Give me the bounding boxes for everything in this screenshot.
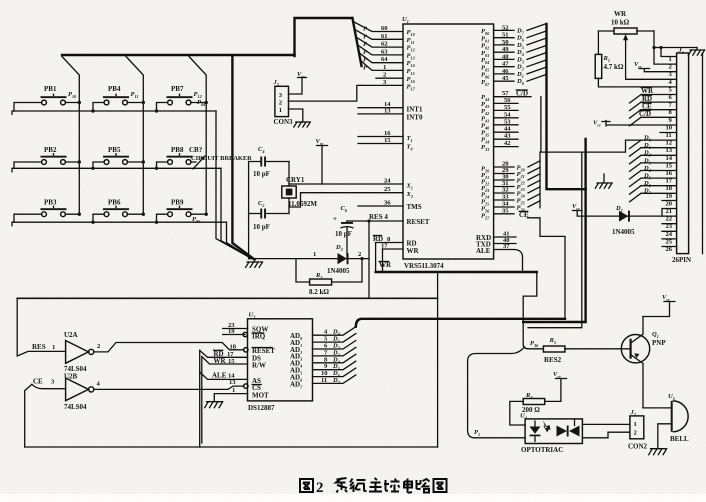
wire: X2 from MCU to crystal [289,193,403,207]
resistor R1 4.7k [595,31,676,87]
DS12887 left pins [223,322,276,400]
Vcc at transistor collector [643,294,675,317]
pushbutton PB9 [155,199,208,225]
char 图 [300,479,313,492]
wire: optotriac outputs to CON2 [582,423,630,425]
ground at bell [649,449,667,455]
char 控 [384,479,400,492]
wire: CON3 pin1 to ground [289,109,303,122]
wire: CON3 pin2 long wire to MCU [289,85,361,101]
wire: MCU pins 60-64,1 fan (P1 port) [353,22,403,72]
wire: MCU bottom bus [376,271,537,273]
wire: top thick bus over keypad [62,54,295,56]
char 统 [350,479,367,493]
wire: center vertical from bus to bottom rail [437,272,439,447]
wire: U2B output net 4 to DS12887 CS [94,386,244,389]
pushbutton PB4 [91,85,145,113]
wire: keypad row 2 line [12,168,221,172]
wire: CE loop left riser [25,384,32,447]
ground mid right [595,174,612,188]
wire: bell second contact to ground [658,424,671,449]
wire: keypad row 1 line [12,111,216,114]
char 电 [404,479,412,493]
wire: second bus line [528,152,582,328]
optocoupler U4 OPTOTRIAC [520,413,582,455]
resistor R5 RES2 [530,337,630,364]
MCU right group3: pins 28-35 P2 port [481,161,540,221]
wire: transistor emitter to bell [643,407,671,409]
inverter U2B 74LS04 [32,373,101,412]
wire: C/D net down [541,97,582,152]
char 图 (second) [434,479,447,492]
wire: 26PIN top rail to ground [654,47,697,49]
wire: DS data bus to right [356,319,565,327]
Vcc to 26PIN pin 10 [593,120,677,128]
wire: MCU pin 2 stub [376,72,403,79]
wire: MOT pin 1 to ground [214,387,247,402]
wire: control bus vertical to bottom rail [200,350,202,447]
caption: 图2 系统主控电路图 [300,478,447,496]
paper noise overlay [0,0,1,1]
DS12887 right AD0-AD7 labels [290,332,303,389]
Vcc at CON3 pin 3 [289,71,307,94]
capacitor C4 10pF (top) [249,146,289,178]
diode D1 1N4005 to pin 22 [572,203,677,236]
MCU T1/T0 pins 16,15 [358,130,413,152]
MCU RD/WR pins 8,17 [373,235,420,255]
net label WR at MCU bottom [379,261,392,269]
wire: bus riser to MCU fan [295,18,353,56]
bell U5 [668,393,689,443]
data fan D0-D7 to pins 12-19 [582,135,677,202]
wire: WR net to DS pin 15 [202,357,248,365]
wire: CE net to DS bus riser [528,218,566,319]
RTC U3 DS12887 box [248,312,313,413]
wire: data bus down right side [523,139,585,322]
wire: 26PIN pin1 riser [661,48,677,57]
MCU X1/X2 pins 24,25 [384,178,413,200]
char 路 [417,479,430,493]
ground at DS12887 MOT [205,402,223,408]
wire: group3 fan bus vertical [539,152,541,208]
pushbutton PB8 with circuit breaker CB? [155,146,252,170]
MCU right group4: RXD/TXD/ALE [476,231,523,273]
wire: row bus verticals going down right of keypad [216,111,248,257]
DS12887 right pin fan to data bus [313,327,356,385]
capacitor C5 10pF (bottom) [249,200,289,231]
MCU right group2: pins 57,56...42 [481,90,531,153]
pushbutton PB6 [91,199,145,224]
wire: right edge vertical [702,53,704,254]
potentiometer WR 10k [598,10,676,79]
pushbutton PB7 [155,85,208,113]
MCU INT1/INT0 pins 14,13 [358,101,423,121]
connector J2 CON2 [628,409,648,451]
transistor Q1 PNP [621,317,666,408]
inverter U2A 74LS04 [32,331,101,373]
wire: 26PIN pin2 from pot rail [654,48,677,65]
wire: X1 from MCU to crystal [289,183,403,185]
pushbutton PB1 [14,85,81,111]
wire: keypad main vertical bus (thick) [232,56,254,260]
wire: P3x net from bus down to RES2 [523,272,543,349]
wire: 26PIN unconnected pin stubs [660,133,677,247]
wire: RESET (RES 4) from MCU [347,213,403,223]
wire: reset loop horizontal [17,297,437,299]
connector J1 26PIN box [672,47,691,264]
pushbutton PB5 [91,146,145,170]
char 主 [369,478,382,492]
Vcc at R4 200ohm [545,371,567,401]
wire: vertical from RES node down [368,221,370,298]
ground at crystal caps [246,259,263,268]
wire: MCU pin 3 from CON3 [360,79,403,86]
wire: RD net to DS pin 17 [200,350,248,358]
connector J3 CON3 [273,79,294,126]
wire: caps left vertical to ground [248,162,250,259]
capacitor C6 10pF electrolytic [333,205,353,259]
crystal CRY1 11.0592M [282,162,318,214]
pushbutton PB2 [14,146,81,168]
wire: reset loop left drop to RES input [17,298,65,356]
char 系 [336,478,347,493]
pushbutton PB3 [14,199,81,223]
resistor R4 200 ohm [510,392,545,425]
wire: keypad column 2 vertical with branch diagonal [126,57,143,215]
wire: pot right to top rail [653,31,655,48]
MCU inside-left port labels P10-P17 [407,29,416,92]
resistor R2 8.2k [296,259,362,296]
control fan WR/RD/CE/C-D to pins 6-9 [630,87,677,126]
wire: data bus vertical from MCU group1 fan [547,24,586,189]
wire: RD/WR down to bus [376,243,383,273]
wire: ALE net to DS pin 14 [200,371,248,379]
diode D2 1N4005 [249,244,369,275]
MCU TMS pin 36 [358,200,422,212]
wire: left fan bus from keypad top [352,18,361,66]
wire: P1 net branch down to optotriac [468,347,525,438]
wire: keypad row 3 line [12,222,227,226]
Vcc at 26PIN pin3 [634,61,677,72]
MCU right group1: P00-P07 data pins 52-45 [481,24,546,87]
26PIN pin numbers 1-26 [666,56,673,253]
Vss symbol above crystal [316,138,328,184]
op-amp none / MCU U1 box [402,16,494,270]
ground at top right [688,48,704,56]
wire: keypad column 1 vertical with branch diagonal [62,57,79,215]
ground at CON3 [294,122,311,127]
wire: bottom rail [25,446,438,448]
wire: keypad column 3 vertical with branch diagonal [189,57,206,215]
wire: U2A output net 2 to DS12887 RESET [94,343,244,352]
